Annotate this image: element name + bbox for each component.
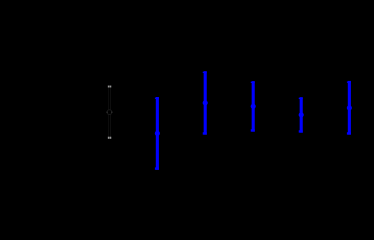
E1 bottom cap [108, 137, 112, 139]
errorbar point E6 (blue, x=349.35) [347, 81, 352, 135]
E1 marker right AA dot [111, 111, 113, 113]
E2 bottom cap [155, 167, 159, 169]
E6 center marker [347, 105, 352, 110]
E4 vertical error line [252, 81, 255, 132]
E5 center marker [299, 112, 304, 117]
E5 bottom cap [299, 130, 303, 132]
E3 center marker [203, 100, 208, 105]
E4 top cap [251, 82, 255, 83]
E3 bottom cap [203, 132, 207, 134]
E2 top cap [155, 98, 159, 99]
E1 vertical error line (near-black with faint lighter edges) [108, 86, 111, 139]
E4 center marker [251, 104, 256, 109]
errorbar point E3 (blue, x=205.2) [203, 71, 208, 134]
errorbar point E1 (black series, x=109.45) [106, 86, 112, 139]
E6 vertical error line [348, 81, 351, 135]
E1 center marker [107, 110, 112, 115]
errorbar point E2 (blue, x=157.35) [155, 97, 160, 170]
E2 center marker [155, 131, 160, 136]
E3 vertical error line [204, 71, 207, 134]
E6 top cap [347, 82, 351, 83]
E3 top cap [203, 72, 207, 73]
E5 vertical error line [300, 97, 303, 132]
errorbar point E5 (blue, x=301.2) [299, 97, 304, 132]
E1 top cap [108, 86, 112, 88]
E1 marker left AA dot [106, 111, 108, 113]
errorbar point E4 (blue, x=253.2) [251, 81, 256, 132]
E6 bottom cap [347, 132, 351, 134]
E5 top cap [299, 98, 303, 99]
E4 bottom cap [251, 129, 255, 131]
E2 vertical error line [156, 97, 159, 170]
